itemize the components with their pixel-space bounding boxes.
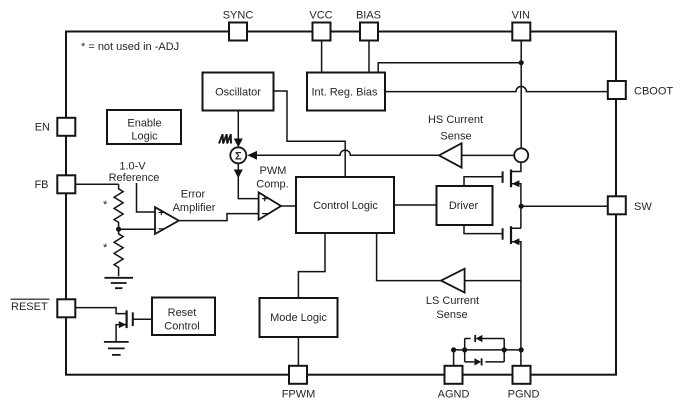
svg-text:VCC: VCC: [309, 10, 332, 22]
svg-text:Sense: Sense: [436, 309, 467, 321]
wire SW node to SW pin: [521, 205, 608, 207]
svg-text:FPWM: FPWM: [282, 389, 316, 401]
pin PGND: [508, 366, 540, 401]
pin VIN: [512, 10, 531, 41]
box Driver: [437, 186, 493, 225]
junction PGND rail: [519, 347, 524, 352]
svg-text:VIN: VIN: [512, 10, 530, 22]
amplifier LS current sense: [441, 269, 521, 293]
ground divider: [104, 278, 133, 288]
svg-text:Oscillator: Oscillator: [215, 87, 261, 99]
diode clamp bottom (points right): [474, 358, 481, 365]
transistor Q3 reset FET: [116, 310, 152, 341]
wire Control Logic to Driver: [394, 204, 437, 206]
box Mode Logic: [260, 298, 338, 337]
wire Mode Logic to FPWM: [297, 337, 299, 366]
junction clamp left: [462, 347, 467, 352]
wire summing junction to PWM comparator: [234, 163, 259, 198]
svg-text:Amplifier: Amplifier: [173, 202, 216, 214]
op-amp error amplifier: [155, 207, 179, 234]
label HS Current Sense: [428, 114, 483, 143]
wire AGND riser: [453, 350, 455, 366]
wire VCC stub: [321, 41, 323, 73]
pin AGND: [438, 366, 470, 401]
svg-text:Mode Logic: Mode Logic: [270, 312, 327, 324]
wire Control Logic to Mode Logic: [298, 233, 325, 298]
svg-text:*: *: [103, 199, 108, 211]
wire PWM comparator out: [281, 205, 296, 207]
summing junction: [230, 147, 246, 163]
box Int. Reg. Bias: [307, 73, 385, 111]
svg-text:*: *: [103, 242, 108, 254]
pin RESET (active low): [11, 299, 76, 317]
wire BIAS stub: [368, 41, 370, 73]
sawtooth ramp symbol: [219, 134, 231, 143]
pin SYNC: [223, 10, 254, 41]
svg-text:Sense: Sense: [440, 131, 471, 143]
wire midpoint to error amplifier: [119, 228, 155, 230]
label PWM Comp.: [256, 165, 288, 191]
svg-text:1.0-V: 1.0-V: [119, 161, 146, 173]
svg-text:EN: EN: [35, 122, 50, 134]
svg-text:* = not used in -ADJ: * = not used in -ADJ: [81, 41, 179, 53]
junction clamp right: [502, 347, 507, 352]
pin EN: [35, 118, 76, 136]
wire FB to divider: [75, 183, 118, 185]
box Oscillator: [203, 73, 274, 111]
pin FPWM: [282, 366, 316, 401]
svg-text:Control: Control: [164, 321, 199, 333]
svg-text:HS Current: HS Current: [428, 114, 483, 126]
svg-text:RESET: RESET: [11, 301, 48, 313]
junction AGND riser: [451, 347, 456, 352]
wire clamp loop: [465, 339, 505, 362]
sensor HS current sense element: [514, 148, 528, 162]
wire clamp mid rail: [454, 349, 521, 351]
box Reset Control: [152, 298, 215, 336]
wire Driver to HS gate: [464, 177, 503, 186]
label Error Amplifier: [173, 189, 216, 215]
resistor R-top: [114, 184, 123, 229]
junction VIN branch: [519, 60, 524, 65]
wire Oscillator to Control Logic: [274, 91, 346, 177]
svg-text:FB: FB: [34, 179, 48, 191]
wire Int. Reg. Bias to CBOOT (hops over VIN rail): [385, 86, 608, 91]
wire Oscillator to summing junction: [234, 111, 243, 148]
wire HS current sense to summing junction (hops over vertical): [247, 150, 439, 160]
svg-text:SW: SW: [634, 201, 652, 213]
transistor LS FET: [503, 206, 521, 366]
ground reset FET: [104, 342, 129, 355]
svg-text:Driver: Driver: [449, 200, 479, 212]
svg-text:Error: Error: [181, 189, 206, 201]
resistor R-bottom: [114, 229, 123, 276]
node SW: [519, 204, 524, 209]
wire error amplifier out: [179, 214, 259, 221]
svg-text:Σ: Σ: [235, 151, 242, 163]
wire VIN rail: [520, 41, 522, 149]
svg-text:Logic: Logic: [131, 131, 158, 143]
node divider midpoint: [116, 227, 121, 232]
svg-text:Enable: Enable: [127, 118, 161, 130]
box Enable Logic: [107, 110, 181, 144]
amplifier HS current sense: [439, 143, 514, 167]
box Control Logic: [296, 177, 394, 233]
pin VCC: [309, 10, 332, 41]
IC boundary: [66, 32, 616, 375]
svg-text:AGND: AGND: [438, 389, 470, 401]
wire reference to error amplifier: [137, 183, 156, 212]
svg-text:PGND: PGND: [508, 389, 540, 401]
svg-text:Int. Reg. Bias: Int. Reg. Bias: [311, 87, 378, 99]
wire Driver to LS gate: [464, 225, 503, 234]
pin FB: [34, 175, 75, 193]
pin SW: [608, 196, 653, 214]
label LS Current Sense: [426, 295, 479, 321]
transistor HS FET: [503, 162, 521, 206]
svg-text:PWM: PWM: [260, 165, 287, 177]
svg-text:Reset: Reset: [168, 307, 197, 319]
svg-text:SYNC: SYNC: [223, 10, 254, 22]
svg-text:Control Logic: Control Logic: [313, 200, 378, 212]
svg-text:Comp.: Comp.: [256, 179, 288, 191]
wire RESET pin to Q3 drain: [75, 308, 126, 314]
svg-text:BIAS: BIAS: [356, 10, 381, 22]
comparator PWM Comp: [259, 192, 281, 219]
wire VIN to Int. Reg. Bias: [378, 63, 521, 73]
svg-text:Reference: Reference: [109, 172, 160, 184]
diode clamp top (points left): [475, 335, 482, 342]
label 1.0-V Reference: [109, 161, 160, 185]
svg-text:LS Current: LS Current: [426, 295, 479, 307]
wire LS current sense to Control Logic: [377, 233, 441, 281]
svg-text:CBOOT: CBOOT: [634, 86, 673, 98]
pin CBOOT: [608, 81, 674, 99]
pin BIAS: [356, 10, 381, 41]
